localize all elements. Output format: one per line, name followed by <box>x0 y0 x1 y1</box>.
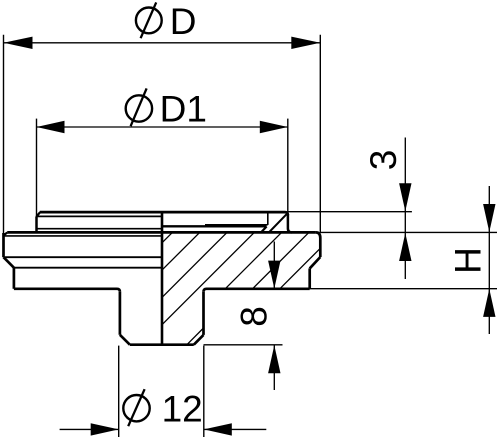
svg-text:D1: D1 <box>160 89 207 130</box>
spigot bottom face <box>130 343 194 346</box>
lower OD edge right <box>308 268 311 288</box>
rim face <box>7 231 316 234</box>
hatch line 5 <box>225 232 281 288</box>
corner diagonal edge at boss root <box>269 214 286 232</box>
recess bottom (thick) <box>162 225 267 227</box>
recess bottom edge circle (thin) <box>205 224 268 226</box>
boss right silhouette edge with base fillet <box>288 214 292 232</box>
arrow H down <box>483 204 495 232</box>
arrow D1 left <box>37 121 65 133</box>
dimension line D <box>4 42 321 44</box>
extension line H bottom (flange bottom level) <box>310 288 497 290</box>
svg-text:H: H <box>448 247 489 274</box>
label diameter symbol of D <box>136 2 162 38</box>
arrow D right <box>291 37 320 49</box>
hatch line 1 <box>162 232 172 242</box>
part outline: top face <box>40 212 288 215</box>
extension line D right <box>319 35 321 233</box>
OD chamfer edge circle (left half) <box>5 256 162 258</box>
spigot bottom chamfer left <box>120 335 130 345</box>
dimension line 8 upper <box>273 242 275 289</box>
recess side edge (thin) <box>267 212 269 225</box>
spigot right edge <box>202 292 205 335</box>
extension line H top (rim level) <box>320 231 497 233</box>
hatch line 6 <box>253 232 309 288</box>
flange bottom face left <box>14 289 120 292</box>
hatch line 2 <box>162 232 200 270</box>
extension line D1 right <box>287 119 289 213</box>
OD edge right <box>319 238 322 257</box>
hatch line 3 <box>162 232 227 297</box>
arrow 3 up <box>399 233 411 261</box>
label diameter symbol of 12 <box>123 389 149 426</box>
rim chamfer edge circle (left half) <box>4 235 162 237</box>
arrow 8 down <box>268 261 280 289</box>
OD chamfer lower edge circle (left half) <box>14 267 162 269</box>
section boundary centerline <box>161 212 164 345</box>
svg-text:D: D <box>170 1 197 42</box>
arrow 12 left <box>91 423 119 435</box>
rim right fillet to OD <box>316 232 320 238</box>
hatch line 4 <box>162 232 254 324</box>
extension line diameter-12 left <box>118 346 120 437</box>
boss left silhouette edge <box>35 216 38 232</box>
arrow 8 up <box>268 345 280 373</box>
arrow 12 right <box>204 423 232 435</box>
extension line diameter-12 right <box>203 346 205 437</box>
dimension line 8 lower <box>273 345 275 390</box>
arrow D left <box>4 37 33 49</box>
svg-text:8: 8 <box>234 306 275 327</box>
boss top chamfer edge circle (left half) <box>37 215 162 217</box>
rim left end chamfer <box>4 232 8 235</box>
OD edge left <box>2 233 5 257</box>
spigot bottom chamfer right <box>194 335 204 345</box>
extension line D1 left <box>36 119 38 217</box>
dimension line 12 left <box>60 428 119 430</box>
arrow D1 right <box>260 121 288 133</box>
dimension line 3 <box>404 138 406 280</box>
flange bottom face right <box>204 289 310 292</box>
spigot left edge <box>119 292 122 335</box>
dimension line D1 <box>37 126 288 128</box>
recess chamfer silhouette <box>261 227 266 233</box>
OD chamfer silhouette left <box>4 257 14 268</box>
svg-text:3: 3 <box>363 150 404 171</box>
lower OD edge left <box>13 268 16 289</box>
boss base fillet tangent circle (left half) <box>37 228 162 230</box>
hatch line 8 (spigot) <box>187 328 204 345</box>
hatch line 7 <box>280 248 321 288</box>
arrow H up <box>483 289 495 317</box>
part outline: boss top chamfer left <box>37 212 41 216</box>
extension line of 3-dim (top face level) <box>288 211 412 213</box>
extension line of 8-dim (spigot bottom level) <box>204 344 283 346</box>
OD chamfer silhouette right <box>310 257 321 268</box>
dimension line 12 right <box>204 428 266 430</box>
arrow 3 down <box>399 183 411 211</box>
label diameter symbol of D1 <box>126 88 152 126</box>
dimension line H <box>488 186 490 334</box>
extension line D left <box>3 35 5 234</box>
svg-text:12: 12 <box>162 389 203 430</box>
